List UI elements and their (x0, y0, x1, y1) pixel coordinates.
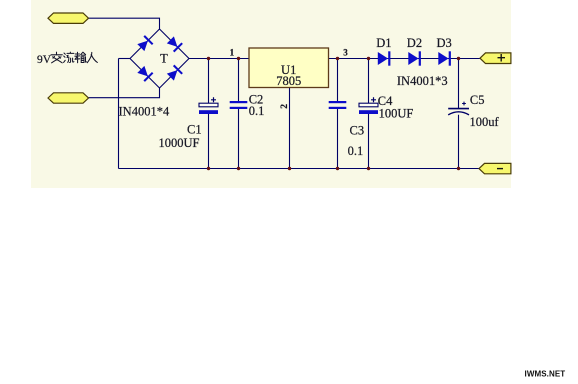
schematic sheet background (31, 0, 511, 188)
bridge diode bottom-left (137, 65, 153, 81)
svg-text:100UF: 100UF (379, 106, 414, 120)
bridge diode bottom-right (166, 65, 182, 81)
wire: bridge right vertex to U1 pin 1 (189, 58, 249, 60)
label + (port name) (498, 54, 506, 62)
wire: C5 leads (458, 59, 460, 169)
入 (87, 52, 97, 62)
junction dot C1 top (207, 57, 210, 60)
svg-text:3: 3 (343, 48, 348, 58)
交 (51, 52, 62, 63)
label - (port name) (497, 168, 503, 170)
wire: top input port to bridge top (89, 18, 160, 29)
capacitor C2 (0.1) (230, 101, 248, 109)
wire: U1 pin 2 to ground rail (289, 88, 291, 169)
port - output (479, 163, 511, 173)
svg-text:C1: C1 (187, 122, 202, 136)
svg-text:1000UF: 1000UF (159, 136, 200, 150)
junction dot C1 bottom (207, 167, 210, 170)
svg-text:0.1: 0.1 (249, 104, 265, 118)
capacitor C1 (1000UF electrolytic) (199, 97, 218, 114)
junction dot C5 bottom (457, 167, 460, 170)
svg-text:C3: C3 (350, 123, 365, 137)
wire: left rail down (118, 59, 120, 169)
svg-text:2: 2 (280, 104, 290, 109)
wire: C4 leads (368, 59, 370, 169)
op U1 7805 regulator box (249, 48, 329, 88)
port P1 (AC input top) (48, 13, 89, 23)
junction dot C5 top (457, 57, 460, 60)
svg-text:D2: D2 (407, 36, 422, 50)
label 9V AC input (9V交流输入) (37, 52, 97, 66)
输 (75, 52, 87, 63)
svg-text:T: T (160, 52, 168, 66)
svg-text:D3: D3 (437, 36, 452, 50)
junction dot C3 top (336, 57, 339, 60)
junction dot C3 bottom (336, 167, 339, 170)
junction dot C4 bottom (367, 167, 370, 170)
wire: C1 leads (208, 59, 210, 169)
svg-text:IWMS.NET: IWMS.NET (525, 369, 566, 378)
diode D2 (408, 51, 421, 65)
bridge diode top-right (166, 36, 182, 52)
bridge rectifier outline (130, 29, 189, 88)
svg-text:7805: 7805 (276, 74, 301, 88)
流 (64, 52, 74, 62)
diode D1 (378, 51, 391, 65)
capacitor C3 (0.1) (329, 101, 347, 109)
svg-text:0.1: 0.1 (348, 144, 364, 158)
junction dot C4 top (367, 57, 370, 60)
wire: bridge left vertex to left rail (119, 58, 131, 60)
wire: C2 leads (238, 59, 240, 169)
port + output (480, 53, 511, 64)
svg-text:IN4001*3: IN4001*3 (397, 74, 448, 88)
diode D3 (438, 51, 451, 65)
wire: U1 pin 3 to + output port (329, 58, 481, 60)
bridge diode top-left (137, 36, 153, 52)
junction dot U1 pin2 bottom (288, 167, 291, 170)
junction dot C2 bottom (237, 167, 240, 170)
svg-text:IN4001*4: IN4001*4 (119, 105, 170, 119)
svg-text:9V: 9V (37, 54, 52, 66)
capacitor C4 (100UF electrolytic) (359, 97, 378, 114)
wire: bottom ground rail (119, 168, 480, 170)
port P2 (AC input bottom) (48, 93, 89, 103)
junction dot C2 top (237, 57, 240, 60)
capacitor C5 (100uf) (448, 102, 469, 115)
wire: bridge bottom vertex to bottom input port (89, 88, 160, 98)
svg-text:1: 1 (230, 48, 235, 58)
svg-text:C5: C5 (470, 93, 485, 107)
svg-text:100uf: 100uf (470, 115, 500, 129)
svg-text:D1: D1 (376, 36, 391, 50)
wire: C3 leads (337, 59, 339, 169)
